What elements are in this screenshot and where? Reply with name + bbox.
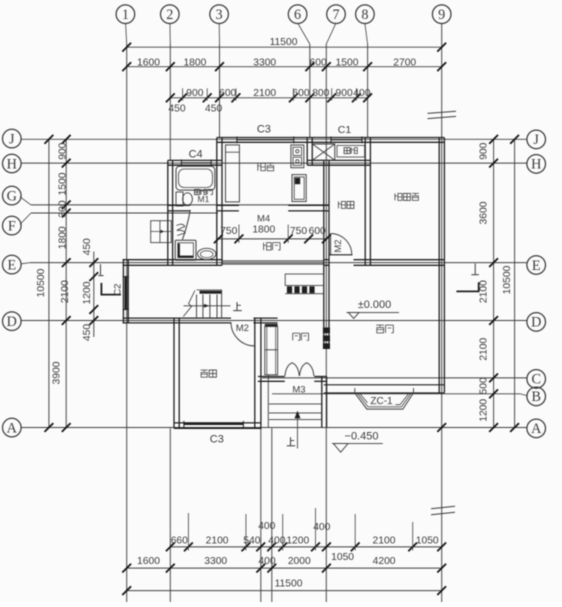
svg-text:400: 400 [268,535,285,546]
svg-text:450: 450 [205,103,222,114]
svg-text:6: 6 [294,7,301,23]
svg-text:1200: 1200 [286,535,309,546]
svg-text:H: H [531,157,541,173]
svg-text:300: 300 [57,200,68,217]
svg-text:3600: 3600 [479,201,490,224]
svg-text:2700: 2700 [393,57,416,68]
svg-text:9: 9 [438,7,445,23]
svg-text:M1: M1 [197,194,209,204]
svg-text:4200: 4200 [373,556,396,567]
svg-text:450: 450 [82,324,93,341]
svg-text:−0.450: −0.450 [345,431,379,443]
svg-text:600: 600 [292,88,309,99]
svg-text:M3: M3 [292,385,305,396]
svg-text:3900: 3900 [51,361,62,384]
svg-text:C3: C3 [257,124,271,136]
svg-text:1050: 1050 [416,535,439,546]
svg-text:C3: C3 [210,434,224,446]
svg-text:3300: 3300 [253,57,276,68]
svg-text:ZC-1: ZC-1 [370,396,393,407]
svg-text:M2: M2 [333,240,343,253]
svg-text:B: B [531,389,540,405]
svg-text:1500: 1500 [336,57,359,68]
svg-text:F: F [8,218,16,234]
svg-text:±0.000: ±0.000 [358,299,392,311]
svg-text:1600: 1600 [137,556,160,567]
svg-text:1050: 1050 [331,552,354,563]
svg-text:3: 3 [216,7,223,23]
svg-text:660: 660 [171,535,188,546]
svg-text:450: 450 [82,238,93,255]
svg-text:11500: 11500 [275,578,303,589]
svg-text:600: 600 [309,226,326,237]
svg-text:2100: 2100 [479,280,490,303]
svg-text:750: 750 [220,226,237,237]
svg-text:A: A [7,420,18,436]
svg-text:450: 450 [168,103,185,114]
svg-text:E: E [532,258,541,274]
svg-text:1800: 1800 [252,224,275,235]
svg-text:2000: 2000 [288,556,311,567]
svg-text:C2: C2 [112,284,123,296]
svg-text:1200: 1200 [82,281,93,304]
svg-text:900: 900 [336,88,353,99]
svg-text:400: 400 [258,556,275,567]
svg-text:1800: 1800 [57,226,68,249]
svg-text:7: 7 [332,7,339,23]
svg-text:900: 900 [186,88,203,99]
svg-text:1200: 1200 [479,399,490,422]
svg-text:900: 900 [479,142,490,159]
svg-text:1800: 1800 [183,57,206,68]
svg-text:540: 540 [243,535,260,546]
svg-text:2100: 2100 [206,535,229,546]
svg-text:G: G [7,188,17,204]
svg-text:8: 8 [361,7,368,23]
svg-text:C4: C4 [189,149,203,161]
svg-text:2100: 2100 [253,88,276,99]
svg-text:M4: M4 [257,213,270,224]
svg-text:600: 600 [219,88,236,99]
svg-text:A: A [531,421,542,437]
svg-text:3300: 3300 [204,556,227,567]
svg-text:400: 400 [313,522,330,533]
svg-text:750: 750 [290,226,307,237]
svg-text:10500: 10500 [36,268,47,297]
svg-text:H: H [7,156,17,172]
svg-text:1600: 1600 [137,57,160,68]
svg-text:D: D [7,314,17,330]
svg-text:M2: M2 [236,323,249,334]
svg-text:600: 600 [310,57,327,68]
svg-text:2100: 2100 [479,337,490,360]
svg-text:900: 900 [57,142,68,159]
svg-text:10500: 10500 [502,265,513,294]
svg-text:500: 500 [479,377,490,394]
svg-text:D: D [531,315,541,331]
svg-text:J: J [533,132,539,148]
svg-text:1: 1 [122,7,129,23]
svg-text:2100: 2100 [60,280,71,303]
svg-text:800: 800 [312,88,329,99]
svg-text:J: J [9,131,15,147]
svg-text:C: C [531,372,540,388]
svg-text:400: 400 [258,521,275,532]
svg-text:2100: 2100 [373,535,396,546]
svg-text:400: 400 [353,88,370,99]
svg-text:11500: 11500 [270,37,298,48]
svg-text:1500: 1500 [57,172,68,195]
svg-text:2: 2 [166,7,173,23]
svg-text:C1: C1 [338,124,352,136]
svg-text:E: E [7,257,16,273]
